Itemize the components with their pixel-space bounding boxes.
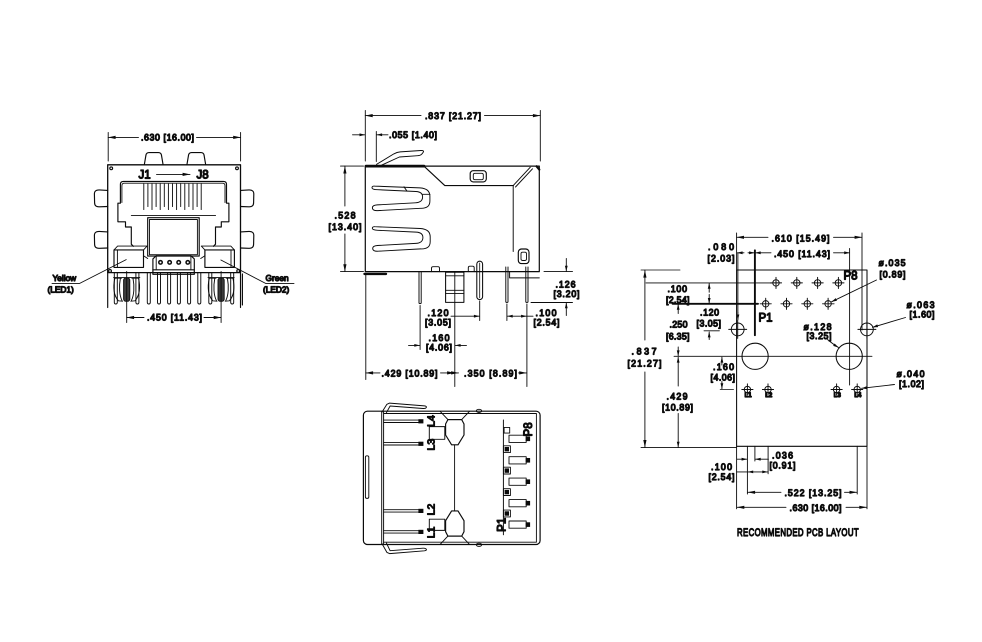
bottom right inner ledge	[510, 272, 540, 278]
svg-text:P8: P8	[523, 422, 535, 436]
shield dimple bottom-right	[518, 249, 529, 264]
dimension .630 [16.00] (pcb)	[737, 506, 786, 508]
dimension .429 [10.89] (side)	[366, 372, 380, 374]
svg-text:ø.035: ø.035	[879, 258, 906, 268]
LED lead L3	[384, 443, 419, 445]
bottom small tab 2	[468, 266, 474, 271]
dimension .250 [6.35]	[677, 304, 679, 313]
dimension .610 [15.49]	[737, 236, 768, 238]
bottom extension lines	[737, 446, 867, 509]
svg-text:.250: .250	[670, 319, 688, 329]
svg-text:ø.063: ø.063	[907, 300, 935, 310]
bottom small tab 1	[432, 267, 440, 272]
rj45 opening outer outline	[118, 181, 229, 246]
ground arm bottom	[382, 543, 427, 554]
svg-text:.429: .429	[667, 392, 688, 402]
post tie bar	[454, 445, 456, 511]
contact wire 3	[176, 260, 181, 265]
svg-text:.528: .528	[335, 211, 356, 221]
dimension .120 [3.05] (pcb)	[704, 330, 719, 332]
dimension .522 [13.25]	[748, 491, 781, 493]
svg-text:L4: L4	[854, 393, 862, 399]
LED lead L2	[384, 510, 419, 512]
mounting post bottom	[440, 536, 469, 544]
centerline through post holes	[674, 355, 872, 357]
svg-text:[4.06]: [4.06]	[426, 342, 452, 352]
side ear left upper	[94, 190, 107, 207]
mount hole right .063	[858, 320, 876, 338]
contact wire 4	[185, 260, 190, 265]
LED hole L1	[742, 384, 753, 395]
shield skirt right edge	[241, 273, 243, 308]
dimension .160 [4.06]	[409, 344, 420, 346]
svg-text:[4.06]: [4.06]	[711, 372, 736, 382]
leader dia .128	[828, 340, 839, 348]
leader dia .035	[832, 280, 877, 302]
svg-text:[0.91]: [0.91]	[770, 460, 796, 470]
svg-text:.610 [15.49]: .610 [15.49]	[772, 233, 830, 243]
pin 5 (side)	[526, 267, 528, 302]
top view inner lines	[384, 414, 537, 543]
dim .610 right extension	[861, 233, 863, 330]
window shelf ticks	[131, 214, 215, 216]
svg-text:L2: L2	[425, 504, 437, 516]
dimension .100 [2.54] lower	[748, 471, 768, 473]
contact comb spine	[502, 420, 504, 535]
dimension .350 [8.89]	[455, 372, 458, 374]
svg-text:J1: J1	[139, 170, 151, 182]
pin 1 (side)	[419, 272, 421, 303]
dimension .160 [4.06] (pcb)	[720, 389, 733, 391]
svg-text:(LED1): (LED1)	[48, 285, 75, 295]
svg-text:.522 [13.25]: .522 [13.25]	[785, 488, 842, 498]
row P8 hole 3	[812, 277, 823, 288]
side ear right lower	[241, 231, 254, 248]
edge oval bottom	[476, 543, 481, 546]
svg-text:P1: P1	[759, 313, 773, 325]
svg-text:[3.25]: [3.25]	[807, 331, 832, 341]
row P8 hole 1	[770, 277, 781, 288]
post side block top	[429, 427, 445, 440]
shield legs	[114, 273, 233, 304]
svg-text:.450 [11.43]: .450 [11.43]	[147, 313, 202, 323]
dimension .429 [10.89] (pcb)	[677, 357, 679, 386]
svg-text:J8: J8	[197, 170, 209, 182]
dimension .837 [21.27] (pcb)	[641, 270, 737, 448]
svg-text:.837 [21.27]: .837 [21.27]	[425, 111, 481, 121]
svg-text:L4: L4	[425, 415, 437, 427]
LED hole L3	[831, 384, 842, 395]
dimension .120 [3.05] (side)	[451, 315, 479, 317]
side ear left lower	[94, 231, 107, 248]
dimension .100 [2.54] upper	[708, 283, 710, 292]
mount hole left .063	[729, 320, 747, 338]
dimension .528 [13.40]	[341, 166, 364, 272]
board-left top extension	[736, 233, 738, 270]
svg-text:.080: .080	[708, 242, 734, 252]
svg-text:[3.05]: [3.05]	[425, 317, 451, 327]
svg-text:L3: L3	[834, 393, 842, 399]
svg-text:P1: P1	[496, 518, 508, 532]
dimension .100 [2.54] (side)	[507, 315, 526, 317]
dimension .036 [0.91]	[737, 458, 747, 460]
LED lead L4	[384, 420, 419, 422]
LED lead L1	[384, 531, 419, 533]
row P1 hole 4	[823, 298, 835, 309]
top-right corner tick	[537, 166, 540, 169]
P1 column line (thick)	[754, 250, 756, 335]
svg-text:.429 [10.89]: .429 [10.89]	[382, 368, 438, 378]
svg-text:.120: .120	[700, 307, 719, 317]
svg-text:[13.40]: [13.40]	[329, 222, 362, 232]
LED1 housing (left)	[114, 250, 144, 268]
svg-text:Green: Green	[266, 273, 289, 283]
contact P row short pins	[503, 446, 510, 517]
plug window inner	[150, 220, 198, 255]
svg-text:[6.35]: [6.35]	[666, 331, 690, 341]
svg-text:L1: L1	[745, 393, 753, 399]
contact wire 1	[158, 260, 163, 265]
plastic post (side)	[446, 272, 464, 302]
LED hole L4	[852, 384, 863, 395]
side body shield outline	[365, 166, 539, 272]
LED hole L2	[762, 384, 773, 395]
svg-text:.100: .100	[536, 308, 557, 318]
svg-text:ø.040: ø.040	[897, 369, 925, 379]
post hole left .128	[742, 343, 768, 369]
svg-text:[3.20]: [3.20]	[554, 289, 580, 299]
svg-text:.120: .120	[428, 308, 449, 318]
leader dia .040	[862, 385, 895, 389]
svg-text:.036: .036	[772, 450, 793, 460]
svg-text:[2.54]: [2.54]	[709, 472, 735, 482]
svg-text:[3.05]: [3.05]	[697, 319, 722, 329]
svg-text:Yellow: Yellow	[53, 273, 78, 283]
row2 extension line (thick)	[673, 303, 758, 305]
dimension .630 [16.00]	[108, 133, 240, 162]
corner rivet top-right	[236, 167, 239, 170]
dimension .126 [3.20]	[531, 272, 573, 303]
svg-text:.100: .100	[711, 462, 732, 472]
contact pin block	[153, 256, 194, 270]
svg-text:L1: L1	[425, 526, 437, 538]
corner rivet bottom-right	[237, 270, 240, 273]
base plate under pin block	[153, 270, 194, 275]
row P1 hole 1	[760, 298, 771, 309]
top face bevel right	[513, 167, 532, 187]
contact comb lines	[144, 184, 201, 210]
svg-text:[21.27]: [21.27]	[628, 359, 662, 369]
svg-text:[2.03]: [2.03]	[708, 254, 735, 264]
post side block bottom	[429, 519, 445, 530]
front body shield outline	[108, 165, 241, 273]
solder tail capsule	[477, 261, 483, 299]
contact wire 2	[167, 260, 172, 265]
EMI finger right	[208, 278, 234, 302]
pin block inner edges	[156, 256, 191, 270]
rj45 opening inner line	[122, 183, 225, 202]
leader dia .063	[873, 318, 906, 328]
pcb board outline	[737, 270, 867, 446]
pin 4 (side)	[506, 267, 508, 302]
contact P row long pins	[509, 435, 526, 528]
svg-text:.100: .100	[668, 284, 688, 294]
row1 extension line	[646, 282, 773, 284]
EMI finger left	[114, 278, 140, 302]
shield skirt left edge	[107, 273, 109, 308]
left latch slot	[365, 456, 368, 499]
latch spring upper	[372, 186, 430, 211]
svg-text:[2.54]: [2.54]	[666, 295, 690, 305]
dim .450 right extension	[849, 249, 851, 386]
svg-text:[1.60]: [1.60]	[910, 310, 935, 320]
svg-text:.450 [11.43]: .450 [11.43]	[774, 249, 830, 259]
top face bevel left	[424, 166, 513, 185]
leader Yellow LED1	[52, 260, 126, 284]
row P1 hole 3	[802, 298, 813, 309]
extension lines bottom	[366, 273, 527, 387]
svg-text:.160: .160	[713, 362, 734, 372]
svg-text:(LED2): (LED2)	[263, 285, 290, 295]
front right vertical edge	[512, 186, 514, 252]
top latch tab left	[144, 153, 163, 165]
front face double line	[381, 411, 383, 544]
dimension .055 [1.40]	[375, 132, 377, 162]
top spring base (thick edge)	[366, 165, 424, 168]
svg-text:.350 [8.89]: .350 [8.89]	[464, 368, 517, 378]
svg-text:.055 [1.40]: .055 [1.40]	[389, 130, 437, 140]
svg-text:L2: L2	[765, 393, 773, 399]
dimension .450 [11.43] (pcb)	[755, 252, 771, 254]
edge oval top	[476, 409, 481, 412]
side ear right upper	[241, 190, 254, 207]
svg-text:.630 [16.00]: .630 [16.00]	[141, 133, 194, 143]
arrow J1 to J8	[157, 173, 191, 175]
latch spring lower	[372, 227, 430, 252]
bottom foot left (thick)	[365, 273, 387, 275]
mounting post top	[440, 411, 469, 419]
top latch tab right	[187, 153, 206, 165]
top grounding flap	[377, 150, 424, 166]
corner rivet top-left	[110, 167, 113, 170]
ground arm top	[382, 403, 427, 413]
dimension .450 [11.43]	[127, 272, 221, 323]
row P1 hole 2	[781, 298, 792, 309]
svg-text:[2.54]: [2.54]	[534, 317, 560, 327]
plug window outer	[148, 218, 200, 256]
svg-text:RECOMMENDED PCB LAYOUT: RECOMMENDED PCB LAYOUT	[737, 527, 859, 539]
comb top square	[504, 427, 510, 433]
leader Green LED2	[221, 260, 294, 283]
svg-text:[0.89]: [0.89]	[880, 270, 906, 280]
corner rivet bottom-left	[109, 270, 112, 273]
svg-text:[1.02]: [1.02]	[899, 379, 924, 389]
post hole right .128	[836, 343, 862, 369]
svg-text:P8: P8	[844, 271, 858, 283]
dimension .837 [21.27]	[365, 111, 540, 162]
svg-text:[10.89]: [10.89]	[662, 403, 693, 413]
dimension .080 [2.03]	[737, 252, 744, 254]
row P8 hole 4	[833, 277, 844, 288]
svg-text:.837: .837	[632, 347, 657, 357]
top view outer shield	[363, 411, 540, 544]
svg-text:.630 [16.00]: .630 [16.00]	[790, 503, 842, 513]
svg-text:L3: L3	[425, 439, 437, 451]
LED2 housing (right)	[205, 250, 235, 268]
row P8 hole 2	[791, 277, 802, 288]
shield dimple top	[470, 171, 486, 182]
